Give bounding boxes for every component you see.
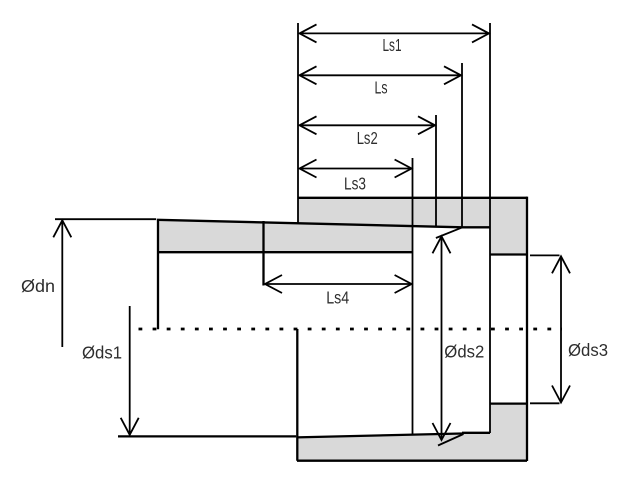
svg-text:Ls2: Ls2 [357,128,378,148]
svg-text:Ødn: Ødn [21,276,55,296]
svg-text:Ls4: Ls4 [326,287,349,307]
svg-text:Øds1: Øds1 [82,343,122,363]
svg-text:Ls3: Ls3 [344,174,366,194]
svg-text:Ls: Ls [375,78,388,98]
svg-text:Øds3: Øds3 [568,340,608,360]
svg-text:Ls1: Ls1 [383,35,402,55]
svg-text:Øds2: Øds2 [444,341,484,361]
